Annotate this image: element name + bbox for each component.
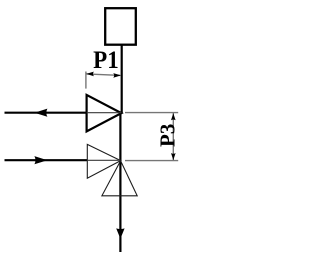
dimension P3: dimension line: [172, 113, 174, 161]
arrowhead: bottom outlet pointing down: [116, 228, 124, 238]
svg-text:P1: P1: [93, 47, 119, 74]
wire: thin centerline through valve V2: [87, 159, 120, 161]
svg-text:P3: P3: [156, 124, 180, 147]
dimension P1: dimension line: [86, 74, 121, 76]
valve V2 (thin triangle pointing right into junction): [87, 144, 120, 178]
dimension P1: right arrowhead: [113, 73, 121, 78]
dimension P3: top arrowhead: [171, 113, 176, 120]
dimension P1: extension line: [85, 72, 87, 89]
reservoir tank R1 (square): [105, 8, 136, 45]
wire: left outflow line: [5, 112, 87, 114]
wire: pipe from tank down to valve apex: [121, 45, 123, 113]
dimension P1: left arrowhead: [86, 72, 94, 77]
dimension P3: bottom arrowhead: [171, 153, 176, 160]
arrowhead: inflow pointing right: [34, 156, 47, 164]
wire: left inflow line: [5, 159, 88, 161]
valve V1 (thick triangle pointing right): [87, 95, 122, 131]
valve V3 (thin triangle pointing up into junction): [102, 161, 137, 196]
dimension P3: bottom extension line: [125, 160, 178, 162]
dimension P3: top extension line: [125, 112, 178, 114]
wire: thin centerline through valve V1: [87, 112, 122, 114]
arrowhead: outflow pointing left: [34, 109, 47, 117]
wire: pipe from valve apex down through junction to outlet: [119, 112, 121, 252]
